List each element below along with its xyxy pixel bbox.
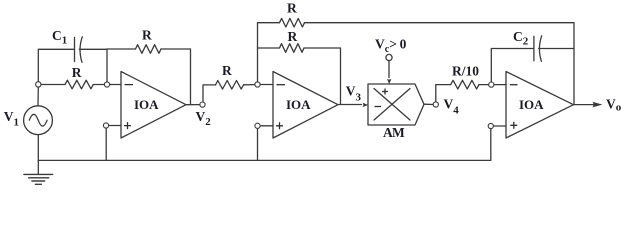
svg-text:V4: V4 [444,97,460,117]
svg-text:IOA: IOA [519,97,544,112]
svg-text:R: R [288,29,298,44]
svg-text:V1: V1 [4,109,19,128]
svg-text:V3: V3 [346,84,362,104]
svg-text:R: R [72,65,82,80]
svg-text:V2: V2 [196,109,212,128]
svg-text:IOA: IOA [286,97,311,112]
svg-text:R/10: R/10 [452,64,479,79]
svg-text:C2: C2 [513,29,529,48]
svg-text:AM: AM [383,125,405,140]
svg-text:R: R [287,1,297,16]
svg-text:C1: C1 [52,28,67,47]
svg-text:Vc> 0: Vc> 0 [375,37,407,56]
svg-text:IOA: IOA [134,97,159,112]
svg-text:R: R [142,28,152,43]
svg-text:R: R [222,63,232,78]
svg-text:Vo: Vo [606,97,622,114]
